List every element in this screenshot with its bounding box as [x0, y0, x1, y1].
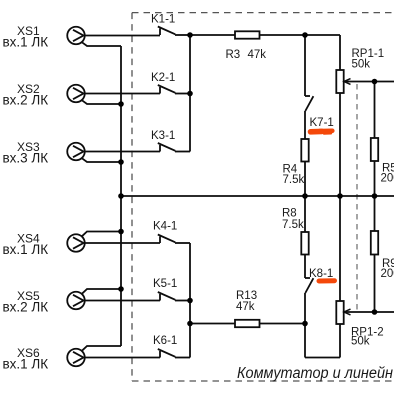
svg-text:7.5k: 7.5k: [283, 174, 305, 186]
svg-text:вх.1 ЛК: вх.1 ЛК: [3, 35, 49, 50]
svg-text:K8-1: K8-1: [309, 268, 333, 280]
svg-text:K7-1: K7-1: [310, 117, 334, 129]
svg-text:вх.1 ЛК: вх.1 ЛК: [3, 242, 49, 257]
svg-text:вх.3 ЛК: вх.3 ЛК: [3, 151, 49, 166]
svg-text:K6-1: K6-1: [153, 335, 177, 347]
svg-text:K1-1: K1-1: [151, 14, 175, 26]
svg-text:200k: 200k: [381, 268, 394, 280]
svg-text:47k: 47k: [248, 49, 267, 61]
svg-text:вх.2 ЛК: вх.2 ЛК: [3, 300, 49, 315]
svg-text:R8: R8: [282, 208, 297, 220]
svg-text:K2-1: K2-1: [151, 72, 175, 84]
svg-text:K3-1: K3-1: [151, 130, 175, 142]
svg-text:47k: 47k: [236, 301, 255, 313]
svg-text:вх.1 ЛК: вх.1 ЛК: [3, 357, 49, 372]
svg-text:200k: 200k: [381, 173, 394, 185]
svg-text:Коммутатор и линейн: Коммутатор и линейн: [237, 365, 393, 382]
svg-text:вх.2 ЛК: вх.2 ЛК: [3, 93, 49, 108]
svg-text:K4-1: K4-1: [153, 221, 177, 233]
svg-text:R3: R3: [226, 49, 241, 61]
svg-text:7.5k: 7.5k: [282, 219, 304, 231]
svg-text:50k: 50k: [351, 336, 370, 348]
svg-text:K5-1: K5-1: [153, 278, 177, 290]
svg-text:50k: 50k: [352, 59, 371, 71]
